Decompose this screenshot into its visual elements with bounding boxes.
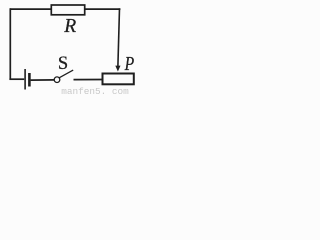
battery cell <box>9 69 29 90</box>
switch S <box>54 54 73 82</box>
wire top-right segment <box>84 8 120 10</box>
wire top-left segment <box>10 8 52 10</box>
wire battery to switch <box>31 79 55 81</box>
watermark text manfen5.com <box>61 86 129 97</box>
svg-text:R: R <box>63 16 76 37</box>
wire bottom-right segment (switch to rheostat) <box>74 79 103 81</box>
wire right vertical segment <box>118 8 120 66</box>
svg-text:S: S <box>58 54 68 74</box>
wire left vertical segment <box>9 8 11 80</box>
rheostat P <box>103 52 135 84</box>
rheostat wiper arrowhead <box>115 66 120 72</box>
svg-text:manfen5. com: manfen5. com <box>61 86 129 94</box>
svg-text:P: P <box>124 52 134 74</box>
resistor R <box>51 5 84 37</box>
